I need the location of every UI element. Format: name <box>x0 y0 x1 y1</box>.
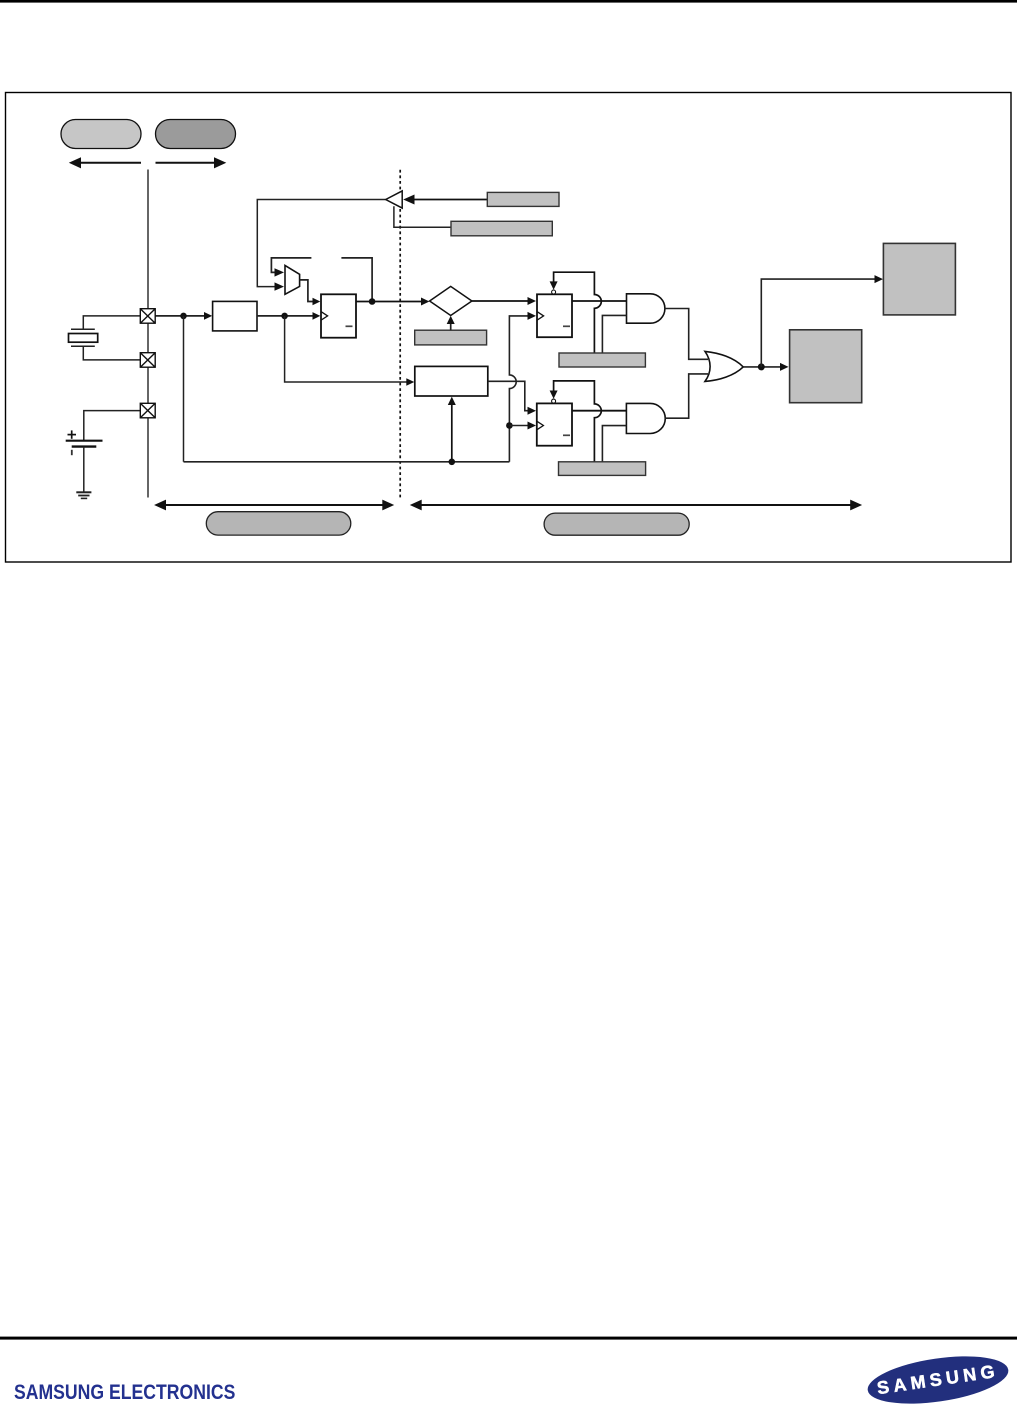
right range arrow <box>156 157 227 168</box>
wire: node A down to feedback rail <box>183 316 185 462</box>
OSC block <box>213 301 257 331</box>
arrowhead into OSC <box>204 312 212 320</box>
FF1 clock chevron <box>321 312 328 321</box>
pad XOUT <box>140 353 155 368</box>
wire: diamond out to FF2 D <box>472 300 531 302</box>
label bar (stop signal) <box>487 192 559 206</box>
OR gate <box>705 351 743 381</box>
wire: Q feedback bracket from node <box>341 258 372 302</box>
FF3 clock chevron <box>537 421 544 430</box>
FF2 reset bubble <box>552 290 556 294</box>
footer company name <box>14 1380 235 1405</box>
wire: OSC out to FF1 clock with node <box>257 315 316 317</box>
FF2 reset bracket wire with hop <box>554 272 602 353</box>
feedback rail <box>184 461 510 463</box>
wire: node B down and right into divider <box>285 316 410 382</box>
wire: rail corner up with hop to FF2 clock <box>509 316 531 462</box>
wire: FF1 Q to diamond with node <box>356 301 425 303</box>
battery B1 <box>66 411 141 493</box>
arrowhead into divider bottom <box>448 397 456 405</box>
pad VDD <box>140 403 155 418</box>
arrowhead into FF3 reset <box>550 391 558 399</box>
FF2 Qbar dash <box>563 325 570 327</box>
arrowhead into diamond <box>421 298 429 306</box>
figure frame <box>6 93 1012 563</box>
wire: mux output to FF1 D input <box>300 280 316 302</box>
FF2 clock chevron <box>537 312 544 321</box>
divider block <box>415 366 488 396</box>
wire: FF2 Q to AND1 <box>572 300 627 302</box>
wire: arrow into buffer from label bar <box>403 195 487 205</box>
node dot B <box>281 313 288 320</box>
FF3 flip-flop <box>537 403 572 445</box>
FF3 reset bubble <box>552 399 556 403</box>
main vertical divider line <box>147 170 149 498</box>
arrowhead FF2 D <box>528 297 537 305</box>
arrowhead into FF2 reset <box>550 281 558 289</box>
wire: AND2 second input from bar <box>602 426 626 462</box>
FF3 Qbar dash <box>563 434 570 436</box>
FF1 Qbar dash <box>346 325 353 327</box>
wire: node up to output box 1 <box>761 279 878 367</box>
label bar (FF2 net) <box>559 353 645 367</box>
bottom pill label right <box>544 513 689 535</box>
wire: AND1 output to OR input 1 <box>665 309 708 360</box>
arrowhead FF3 clock <box>528 422 537 430</box>
wire: AND1 second input from bar <box>602 315 626 353</box>
bottom pill label left <box>206 512 350 535</box>
arrowhead up into diamond <box>447 316 455 324</box>
left range arrow <box>69 157 141 168</box>
wire: rail up into divider bottom <box>451 401 453 462</box>
arrowhead FF2 clock <box>528 312 537 320</box>
buffer U1 (tri-state, points left) <box>386 191 403 208</box>
bottom left range double arrow <box>154 500 394 511</box>
node dot OR out <box>758 363 765 370</box>
legend pill 2 (dark) <box>156 120 236 149</box>
output box 2 <box>790 330 862 403</box>
arrowhead mux input 2 <box>275 282 285 290</box>
arrowhead FF1 clock <box>313 312 321 320</box>
wire: branch to FF3 clock <box>509 425 531 427</box>
AND gate 1 <box>627 294 665 323</box>
node dot clock branch <box>506 422 513 429</box>
dashed divider line <box>399 170 401 498</box>
wire: FF3 Q to AND2 <box>572 410 626 412</box>
wire: OR output with node <box>743 366 783 368</box>
AND gate 2 <box>626 403 665 433</box>
wire: divider out to FF3 D <box>488 381 531 410</box>
diamond decision <box>430 286 472 315</box>
wire: buffer output to mux input 2 <box>257 200 385 287</box>
wire: buffer enable to label bar <box>394 206 451 227</box>
top page rule <box>0 0 1017 3</box>
arrowhead FF3 D <box>528 407 537 415</box>
mux M1 <box>285 265 300 294</box>
crystal X1 <box>69 316 141 360</box>
wire: feedback bracket to mux input 1 <box>271 258 311 273</box>
node dot on Q <box>369 298 376 305</box>
arrowhead into output box 2 <box>780 363 789 371</box>
arrowhead mux input 1 <box>275 268 285 276</box>
node dot A <box>180 313 187 320</box>
arrowhead into output box 1 <box>875 275 884 283</box>
wire: AND2 output to OR input 2 <box>665 374 708 418</box>
arrowhead into divider <box>406 378 414 386</box>
FF2 flip-flop <box>537 294 572 337</box>
label bar (FF3 net) <box>559 462 646 476</box>
FF1 flip-flop <box>321 294 356 337</box>
wire: bar up into diamond <box>450 320 452 331</box>
label bar (enable signal) <box>451 221 552 236</box>
wire: pad XIN to OSC with node <box>155 315 208 317</box>
legend pill 1 (light) <box>61 120 141 149</box>
samsung logo <box>848 1340 1017 1406</box>
ground <box>76 492 91 498</box>
footer rule <box>0 1337 1017 1340</box>
output box 1 <box>883 243 955 315</box>
pad XIN <box>140 309 155 324</box>
node dot on rail <box>449 459 456 466</box>
bottom right range double arrow <box>410 500 862 511</box>
label bar under diamond <box>415 330 487 345</box>
FF3 reset bracket wire with hop <box>554 381 602 462</box>
arrowhead FF1 D <box>313 298 321 306</box>
